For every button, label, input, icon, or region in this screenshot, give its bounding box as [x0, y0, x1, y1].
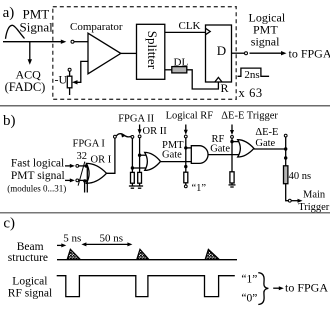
svg-text:Splitter: Splitter	[145, 31, 160, 70]
ground	[136, 185, 143, 187]
svg-text:“1”: “1”	[241, 273, 257, 285]
resistor termination	[230, 172, 234, 183]
2ns pulse symbol	[238, 68, 270, 76]
node junction	[184, 146, 187, 149]
svg-text:“0”: “0”	[241, 292, 257, 304]
wire connector to comparator	[74, 41, 88, 43]
wire branch down to ACQ	[29, 42, 31, 62]
node connector circle	[284, 134, 287, 137]
wire OR II output	[161, 161, 192, 163]
wire	[185, 183, 187, 185]
svg-text:Logical RF: Logical RF	[166, 111, 214, 122]
wire D output	[232, 52, 245, 54]
wire	[79, 179, 87, 181]
node junction	[83, 179, 86, 182]
node connector circle	[184, 135, 187, 138]
resistor termination	[184, 172, 188, 183]
wire vertical dE-E	[231, 138, 233, 171]
wire stub to OR II gate	[140, 154, 146, 156]
svg-text:RF signal: RF signal	[8, 288, 52, 300]
node connector circle	[288, 199, 291, 202]
node input connector circle	[71, 40, 74, 43]
cable squiggle FPGA I to FPGA II	[116, 134, 131, 137]
svg-text:Gate: Gate	[210, 143, 230, 154]
svg-text:Comparator: Comparator	[70, 21, 123, 33]
wire vertical from OR II connector	[139, 138, 141, 172]
delay line DL box	[172, 67, 187, 73]
svg-text:32: 32	[77, 151, 88, 162]
bus slash 32	[78, 162, 85, 186]
wire comparator output	[121, 52, 137, 54]
node junction	[230, 140, 233, 143]
svg-text:D: D	[217, 43, 226, 58]
wire arrow	[291, 200, 299, 202]
node connector circle	[76, 179, 79, 182]
svg-text:FPGA I: FPGA I	[73, 139, 106, 150]
or-gate OR I	[86, 163, 106, 183]
svg-text:OR I: OR I	[91, 154, 112, 165]
svg-text:a): a)	[3, 5, 15, 21]
node connector circle	[114, 135, 117, 138]
svg-text:b): b)	[3, 113, 16, 129]
wire stub to AND gate	[186, 147, 192, 149]
svg-text:(modules 0...31): (modules 0...31)	[7, 184, 66, 194]
svg-text:ACQ: ACQ	[16, 67, 42, 81]
svg-text:structure: structure	[8, 252, 48, 264]
resistor termination	[138, 172, 142, 183]
svg-text:2ns: 2ns	[244, 69, 259, 81]
wire	[131, 183, 133, 186]
wire to main trigger	[286, 184, 288, 201]
wire splitter to DL	[165, 69, 172, 71]
svg-text:-U: -U	[55, 72, 68, 86]
svg-text:Trigger: Trigger	[298, 202, 330, 213]
node -U connector circle	[68, 68, 71, 71]
svg-text:CLK: CLK	[179, 20, 201, 32]
separator line 2	[0, 212, 330, 214]
node output connector	[245, 52, 248, 55]
or-gate dE-E Gate	[238, 140, 254, 157]
svg-text:PMT signal: PMT signal	[11, 170, 65, 182]
node junction	[184, 165, 187, 168]
wire arrow to FPGA	[273, 287, 280, 289]
wire dE-E Gate output	[254, 148, 286, 150]
svg-text:40 ns: 40 ns	[289, 171, 311, 182]
beam baseline	[57, 259, 237, 261]
svg-text:signal: signal	[251, 35, 280, 49]
svg-text:R: R	[221, 81, 229, 95]
wire DL to R input	[187, 70, 219, 89]
wire down	[285, 149, 287, 166]
svg-text:ΔE-E Trigger: ΔE-E Trigger	[221, 111, 278, 122]
node junction	[138, 154, 141, 157]
svg-text:Gate: Gate	[255, 138, 275, 149]
beam bunch 2	[137, 249, 149, 259]
svg-text:FPGA II: FPGA II	[118, 114, 154, 125]
svg-text:ΔE-E: ΔE-E	[255, 127, 278, 138]
svg-text:Logical: Logical	[12, 276, 47, 288]
node connector circle	[138, 135, 141, 138]
node connector circle	[131, 136, 134, 139]
node connector circle	[231, 136, 234, 139]
wire	[79, 165, 88, 167]
or-gate OR II	[145, 152, 161, 170]
wire up to connector	[285, 137, 287, 149]
clock wedge	[206, 28, 211, 34]
wire stub to dE-E gate	[232, 141, 239, 143]
wire stub down	[86, 166, 88, 193]
svg-text:Gate: Gate	[162, 150, 182, 161]
node junction	[85, 164, 88, 167]
svg-text:“1”: “1”	[192, 183, 207, 194]
svg-text:c): c)	[3, 216, 15, 232]
svg-text:50 ns: 50 ns	[100, 232, 124, 244]
node junction	[284, 156, 287, 159]
wire	[139, 183, 141, 186]
wire	[69, 88, 71, 95]
node connector circle	[76, 165, 79, 168]
resistor termination	[131, 172, 135, 183]
PMT pulse waveform	[6, 25, 25, 38]
wire stub down	[84, 181, 86, 193]
svg-text:to FPGA: to FPGA	[285, 281, 328, 295]
op-amp comparator triangle	[88, 33, 121, 74]
node junction	[284, 147, 287, 150]
ground	[229, 184, 236, 186]
wire to OR II lower input	[132, 167, 146, 169]
svg-text:Signal: Signal	[20, 20, 54, 35]
wire 50ns double arrow	[84, 243, 130, 245]
potentiometer -U threshold	[67, 76, 72, 88]
beam bunch 1	[67, 249, 80, 259]
wire OR I output up	[107, 138, 115, 173]
splitter box U2	[137, 24, 165, 79]
wire Logical RF arrow	[185, 125, 187, 132]
svg-text:Fast logical: Fast logical	[11, 157, 64, 169]
wire 5ns arrow	[57, 244, 63, 246]
wire PMT signal main line	[3, 41, 63, 43]
wire input arrow 1	[65, 165, 72, 167]
dashed FPGA box	[53, 7, 236, 100]
svg-text:5 ns: 5 ns	[63, 232, 81, 244]
svg-text:Main: Main	[303, 190, 326, 201]
curly brace	[258, 273, 268, 305]
beam bunch 3	[205, 249, 219, 259]
wire vertical Logical RF	[185, 138, 187, 172]
wire arrow to FPGA	[250, 52, 284, 54]
and-gate PMT Gate	[191, 146, 208, 164]
D flip-flop U3	[206, 25, 232, 82]
node logic-1 connector	[184, 185, 187, 188]
wire	[69, 71, 71, 76]
R wedge	[215, 77, 222, 82]
wire dE-E arrow	[231, 125, 233, 132]
svg-text:OR II: OR II	[143, 126, 168, 137]
svg-text:(FADC): (FADC)	[5, 80, 46, 94]
wire arrow into comparator input	[61, 40, 67, 44]
delay resistor 40ns	[284, 166, 288, 184]
separator line 1	[0, 105, 330, 107]
ground	[129, 185, 136, 187]
svg-text:x 63: x 63	[239, 86, 263, 100]
wire input arrow 2	[65, 179, 72, 181]
wire vertical from squiggle connector	[131, 138, 133, 172]
wire	[231, 183, 233, 185]
wire PMT Gate output	[208, 154, 239, 156]
wire OR II arrow	[139, 125, 141, 132]
wire comparator inverting input	[75, 61, 89, 82]
logical RF waveform	[57, 276, 235, 297]
node junction	[131, 166, 134, 169]
wire splitter to CLK input	[165, 31, 206, 33]
svg-text:to FPGA: to FPGA	[289, 46, 330, 60]
